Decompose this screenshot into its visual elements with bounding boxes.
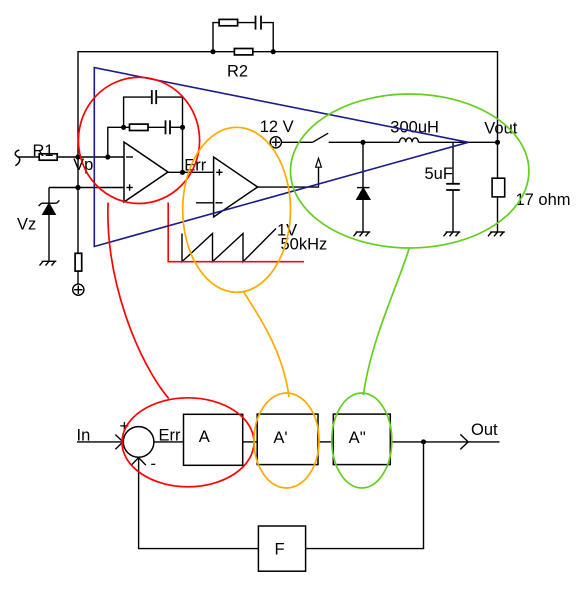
wire A'' to Out xyxy=(390,441,499,443)
capacitor compensation top xyxy=(152,90,156,104)
op-amp U1 error amplifier xyxy=(124,142,168,202)
block A xyxy=(184,414,243,465)
svg-text:A': A' xyxy=(273,429,287,447)
wire 12V to switch xyxy=(281,141,312,143)
node at R2 left xyxy=(210,49,215,54)
node compensation left junction xyxy=(121,125,126,130)
ground under zener xyxy=(40,261,57,265)
red ellipse error amp xyxy=(78,77,199,203)
wire compensation vertical from inverting node xyxy=(108,127,130,157)
summing node circle xyxy=(123,427,154,458)
arrow head Out xyxy=(460,434,468,449)
orange connector curve xyxy=(244,292,289,397)
inductor 300uH xyxy=(400,138,419,142)
source plus circle left xyxy=(73,284,84,295)
source plus circle 12V xyxy=(270,137,281,148)
node Vp xyxy=(75,154,80,159)
ground under load xyxy=(488,232,505,236)
red connector curve xyxy=(108,203,169,399)
input terminal squiggle xyxy=(15,150,19,166)
sawtooth baseline red xyxy=(168,203,304,262)
wire R1 to op-amp inverting input xyxy=(57,156,124,158)
U1 minus sign xyxy=(126,156,133,158)
wire F to summing node xyxy=(139,458,259,549)
arrow head into summing node bottom xyxy=(131,458,146,466)
orange ellipse block A' xyxy=(254,393,319,488)
wire In to summing node xyxy=(77,441,123,443)
node Vout xyxy=(495,140,500,145)
wire resistor to source xyxy=(77,271,79,284)
arrow head into summing node xyxy=(115,435,123,450)
U1 plus sign xyxy=(126,184,132,190)
wire Vp down to lower rail xyxy=(77,157,79,188)
wire top cap to right branch xyxy=(156,97,182,172)
PWM output wire from comparator xyxy=(258,167,319,187)
op-amp U2 comparator xyxy=(214,157,258,217)
U2 minus input stub xyxy=(196,202,214,204)
node at R2 right xyxy=(271,49,276,54)
wire A to A' xyxy=(243,441,258,443)
svg-text:Out: Out xyxy=(471,421,498,439)
svg-text:Vz: Vz xyxy=(17,216,36,234)
svg-text:+: + xyxy=(120,418,130,436)
node compensation tap xyxy=(105,154,110,159)
diode freewheel xyxy=(357,142,370,232)
blue system triangle xyxy=(94,68,468,247)
resistor bias xyxy=(75,253,82,271)
wire feedback down and left xyxy=(306,442,424,549)
sawtooth waveform xyxy=(182,229,276,262)
node Err xyxy=(180,170,185,175)
block A'' xyxy=(333,414,390,465)
U2 plus sign xyxy=(216,169,222,175)
node lower rail xyxy=(75,185,80,190)
resistor R2 xyxy=(234,49,252,55)
red ellipse block A xyxy=(122,398,254,487)
wire down to bias resistor xyxy=(77,188,79,254)
wire A' to A'' xyxy=(318,441,333,443)
svg-text:R1: R1 xyxy=(33,142,54,160)
wire top feedback rail xyxy=(78,52,498,157)
ground under diode xyxy=(354,232,371,236)
wire inductor to Vout xyxy=(418,141,497,143)
resistor 17 ohm load xyxy=(492,142,505,232)
resistor R1 xyxy=(39,154,57,160)
svg-text:F: F xyxy=(275,541,285,559)
node compensation right junction xyxy=(180,125,185,130)
resistor compensation xyxy=(130,124,149,130)
wire resistor to capacitor xyxy=(148,126,166,128)
svg-text:-: - xyxy=(151,455,157,473)
wire summing node to A xyxy=(154,441,184,443)
wire switch to inductor xyxy=(329,141,400,143)
svg-text:5uF: 5uF xyxy=(425,165,453,183)
node diode junction xyxy=(360,140,365,145)
block F xyxy=(258,526,305,571)
capacitor in R2 top branch xyxy=(256,16,262,30)
ground under capacitor xyxy=(444,232,461,236)
wire capacitor to right branch xyxy=(170,126,183,128)
svg-text:12 V: 12 V xyxy=(260,118,294,136)
wire input to R1 xyxy=(18,156,40,158)
svg-text:A: A xyxy=(199,428,210,446)
resistor in R2 top branch xyxy=(219,19,238,25)
svg-text:R2: R2 xyxy=(227,63,248,81)
capacitor 5uF xyxy=(446,142,460,232)
green ellipse output stage xyxy=(291,94,529,248)
node output junction xyxy=(421,439,426,444)
wire lower rail xyxy=(49,187,124,189)
wire compensation top branch xyxy=(124,97,152,127)
U2 minus sign xyxy=(216,202,223,204)
orange ellipse comparator xyxy=(183,127,291,292)
zener diode Vz xyxy=(39,188,60,262)
PWM arrow head xyxy=(316,158,322,167)
wire R2 top branch xyxy=(213,23,273,52)
svg-text:A'': A'' xyxy=(349,429,366,447)
block A' xyxy=(257,414,318,465)
switch blade xyxy=(313,133,329,142)
capacitor compensation series xyxy=(166,120,171,134)
wire Err node xyxy=(168,171,214,173)
green ellipse block A'' xyxy=(332,393,392,488)
green connector curve xyxy=(363,248,409,395)
